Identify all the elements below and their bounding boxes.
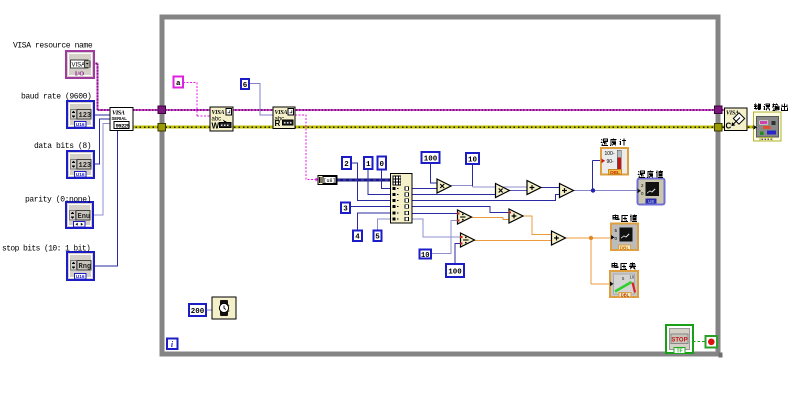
svg-text:100-: 100- [605, 151, 615, 157]
voltage value indicator [611, 224, 638, 252]
divide function 2 [461, 233, 475, 247]
junction temperature [591, 188, 595, 192]
svg-text:VISA: VISA [72, 63, 86, 69]
svg-text:DBL: DBL [620, 245, 630, 251]
wire write buffer string [183, 83, 210, 117]
wire add1 output [541, 187, 560, 189]
svg-text:VISA resource name: VISA resource name [13, 42, 93, 51]
wire const 100 to multiply [431, 163, 438, 183]
svg-text:6: 6 [243, 82, 248, 90]
svg-text:100: 100 [424, 155, 438, 163]
svg-text:3: 3 [343, 206, 348, 214]
svg-text:123: 123 [79, 162, 92, 170]
label wen du zhi (temperature value) [638, 171, 663, 178]
junction voltage [589, 236, 593, 240]
parity control [66, 202, 93, 228]
wire index 0 [382, 170, 392, 189]
wire data bits [94, 119, 110, 164]
string constant a [174, 77, 184, 88]
wire index 5 [378, 219, 392, 231]
wire VISA resource (purple dashed) [93, 64, 726, 111]
wire divide2 output [475, 240, 553, 242]
while loop frame [162, 17, 718, 354]
constant 5 [374, 231, 382, 242]
svg-text:U8: U8 [648, 199, 654, 204]
tunnel error right [715, 124, 723, 132]
svg-text:0: 0 [379, 161, 384, 169]
multiply function x100 [437, 179, 451, 193]
svg-text:parity (0:none): parity (0:none) [25, 195, 91, 204]
label dian ya zhi (voltage value) [613, 215, 637, 222]
wire element0 to multiply [412, 188, 437, 190]
multiply function x10 [496, 184, 510, 198]
tunnel VISA right [715, 106, 723, 114]
VISA Close [725, 108, 748, 131]
svg-text:99225: 99225 [116, 122, 131, 129]
wire multiply1 output [451, 186, 527, 188]
error out indicator [754, 112, 782, 141]
svg-text:U16: U16 [76, 122, 85, 128]
svg-text:baud rate (9600): baud rate (9600) [21, 93, 91, 102]
constant 200 ms [189, 304, 206, 316]
svg-text:R: R [275, 119, 281, 128]
stop button [666, 325, 693, 355]
voltage meter indicator [610, 271, 638, 297]
constant 6 byte count [241, 79, 249, 90]
svg-text:2: 2 [344, 161, 349, 169]
VISA Read [273, 107, 295, 129]
svg-text:1: 1 [366, 161, 371, 169]
wire u8 byte array [337, 179, 392, 182]
wire voltage value [566, 237, 612, 239]
wire element2 to add2 [412, 195, 560, 201]
wire to voltage meter [591, 238, 610, 284]
tunnel error left [158, 124, 166, 132]
svg-text:VISA: VISA [275, 110, 288, 116]
loop iteration terminal i [167, 339, 178, 350]
svg-text:200: 200 [191, 308, 205, 316]
svg-text:SERIAL: SERIAL [112, 116, 128, 121]
svg-text:VISA: VISA [212, 110, 225, 116]
wire index 2 [351, 163, 391, 201]
wire element5 to divide2 [412, 219, 461, 237]
add function 4 [552, 231, 566, 245]
wire element1 to multiply2 [412, 194, 496, 196]
wire temperature value [574, 190, 638, 192]
constant 0 [378, 157, 387, 170]
data bits control [67, 151, 94, 178]
Index Array [391, 174, 413, 224]
svg-text:100: 100 [448, 268, 462, 276]
constant 100 (temperature) [422, 152, 440, 163]
svg-text:stop bits (10: 1 bit): stop bits (10: 1 bit) [2, 245, 90, 254]
loop condition terminal [706, 336, 718, 348]
wire add3 output [523, 216, 552, 235]
wire read data string [295, 115, 318, 180]
wire stop boolean (green dashed) [693, 341, 706, 343]
svg-text:90-: 90- [607, 159, 615, 165]
String to Byte Array [316, 176, 338, 185]
add function 1 [527, 181, 541, 195]
svg-text:10: 10 [468, 156, 478, 164]
constant 1 [364, 157, 373, 169]
thermometer indicator [601, 148, 628, 176]
svg-text:U16: U16 [76, 274, 85, 280]
label wen du ji (thermometer) [601, 139, 626, 146]
wire error cluster (olive dashed) [131, 126, 754, 129]
svg-text:DBL: DBL [610, 170, 620, 176]
wire const 10 [472, 164, 474, 186]
tunnel VISA left [158, 106, 166, 114]
constant 10 (temperature) [466, 153, 479, 164]
wire to thermometer [593, 161, 602, 191]
svg-text:TF: TF [676, 349, 682, 355]
wire baud rate [94, 114, 110, 116]
wire divide1 output [472, 218, 510, 220]
wire index 4 [358, 213, 392, 231]
wire element4 to divide1 [412, 213, 458, 215]
wire const 10 to divide1 [431, 221, 458, 254]
wire element3 to add3 [412, 207, 509, 213]
VISA Write [210, 107, 233, 131]
add function 3 [509, 209, 523, 223]
svg-text:data bits (8): data bits (8) [34, 142, 91, 151]
svg-text:[u8]: [u8] [324, 178, 336, 184]
svg-text:DBL: DBL [621, 292, 630, 297]
constant 2 [342, 157, 351, 169]
wire stop bits [94, 131, 118, 266]
wire parity [93, 124, 110, 216]
svg-text:a: a [176, 80, 181, 88]
constant 3 [341, 203, 350, 214]
svg-text:123: 123 [79, 112, 92, 120]
divide function 1 [458, 210, 472, 224]
wire const 100 to divide2 [455, 244, 461, 265]
constant 4 [353, 231, 362, 242]
add function 2 [560, 184, 574, 198]
svg-text:Enu: Enu [78, 213, 91, 221]
temperature value indicator [638, 179, 665, 205]
wire index 1 [368, 170, 391, 195]
svg-text:10: 10 [421, 252, 429, 260]
svg-text:W: W [212, 122, 220, 131]
wire multiply2 output [510, 190, 528, 192]
Wait (ms) function [212, 297, 236, 319]
wire byte count 6 [249, 84, 273, 116]
constant 100 (voltage) [446, 264, 464, 277]
wire 200 to wait [206, 309, 212, 311]
label cuo wu shu chu (error out) [754, 104, 787, 111]
svg-text:U16: U16 [76, 172, 85, 178]
coercion dots [457, 212, 459, 214]
constant 10 (voltage) [420, 250, 432, 260]
wire index 3 [350, 206, 391, 208]
VISA Configure Serial Port [110, 108, 133, 131]
svg-text:4: 4 [355, 234, 360, 242]
label dian ya biao (voltage meter) [612, 263, 636, 270]
VISA resource name control [66, 51, 94, 78]
baud rate control [67, 101, 94, 128]
svg-text:5: 5 [375, 234, 380, 242]
svg-text:C: C [726, 122, 732, 131]
stop bits control [67, 252, 94, 280]
svg-text:Rng: Rng [79, 263, 92, 271]
svg-text:STOP: STOP [671, 338, 687, 344]
svg-text:10: 10 [630, 275, 635, 280]
svg-text:I/O: I/O [75, 71, 84, 78]
